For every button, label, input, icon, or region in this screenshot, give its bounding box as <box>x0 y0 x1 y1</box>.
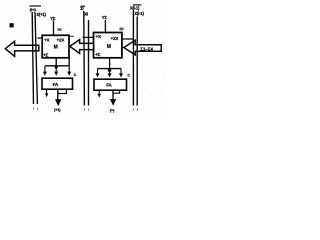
svg-text:Σi: Σi <box>80 6 83 11</box>
arrow output far left <box>5 41 39 56</box>
arrow Sigma1-Sigma4 input right <box>124 40 161 55</box>
wire bus under M2 <box>98 68 122 70</box>
wire FA1 carry L <box>58 90 66 94</box>
wire FA2 carry L <box>113 90 120 93</box>
node junction dot right cell <box>108 69 111 72</box>
svg-text:Xi: Xi <box>84 12 88 17</box>
svg-text:X(i-1): X(i-1) <box>130 5 140 10</box>
node tick marks bottom right pair <box>132 108 134 111</box>
wire bus under M1 <box>45 65 70 67</box>
wire FA2 output small <box>98 90 100 94</box>
wire stub into M1 left <box>37 37 42 39</box>
node select label left cell <box>58 28 62 31</box>
wire M1 corner down <box>68 58 70 66</box>
svg-text:X(i-1): X(i-1) <box>134 11 144 16</box>
wire FA1 sum arrow <box>57 90 59 100</box>
svg-text:FA: FA <box>106 83 112 88</box>
svg-text:(+1): (+1) <box>54 107 61 112</box>
wire vertical pair left a <box>32 12 33 104</box>
full adder FA2 <box>94 79 127 90</box>
wire branch from M2 right to pair <box>122 38 133 40</box>
wire drop 3 into FA1 <box>68 66 70 72</box>
svg-text:+2X: +2X <box>111 36 120 41</box>
node tick marks bottom left pair <box>33 108 35 111</box>
node Sigma(i+1) top label left cell <box>30 6 42 12</box>
mux M2 <box>94 33 122 58</box>
node M output label far left <box>10 23 14 27</box>
svg-text:+Σ: +Σ <box>95 52 100 57</box>
wire M2 output down <box>109 58 111 70</box>
svg-text:+Σ: +Σ <box>43 53 48 58</box>
node select label right cell <box>120 28 124 31</box>
wire stub from M1 right <box>69 35 74 37</box>
wire drop 1 into FA1 <box>44 66 46 72</box>
wire FA1 output small <box>46 90 48 95</box>
svg-text:M: M <box>54 45 58 51</box>
wire drop 3 into FA2 <box>120 69 122 74</box>
wire drop 1 into FA2 <box>97 69 99 74</box>
svg-text:YΣ: YΣ <box>50 16 56 21</box>
svg-text:X(+1): X(+1) <box>36 12 46 17</box>
wire vertical pair middle b <box>88 20 90 106</box>
wire vertical pair middle a <box>83 11 86 106</box>
full adder FA1 <box>42 78 73 89</box>
svg-text:YΣ: YΣ <box>102 15 108 20</box>
wire drop 2 into FA1 <box>55 67 57 72</box>
wire M1 output down <box>55 58 57 66</box>
node Sigma-i top label middle <box>80 6 85 11</box>
svg-text:FA: FA <box>53 82 59 87</box>
wire FA2 sum arrow <box>112 90 114 99</box>
wire vertical pair right b <box>136 17 138 106</box>
node X(i-1) top label right cell <box>130 5 142 10</box>
svg-text:M: M <box>107 44 111 50</box>
wire drop 2 into FA2 <box>109 70 111 74</box>
arrow into M1 from right cell <box>70 40 94 54</box>
wire vertical pair left b <box>35 12 37 104</box>
wire Y input into M2 top <box>104 20 106 33</box>
svg-text:Σ1–Σ4: Σ1–Σ4 <box>140 46 153 51</box>
node junction dot left cell <box>55 65 58 68</box>
svg-text:+2X: +2X <box>57 37 66 42</box>
wire Y input into M1 top <box>53 21 55 36</box>
wire branch into M2 left <box>83 36 94 38</box>
wire vertical pair right a <box>132 10 134 106</box>
mux M1 <box>42 35 69 58</box>
node tick marks bottom middle pair <box>84 108 86 111</box>
